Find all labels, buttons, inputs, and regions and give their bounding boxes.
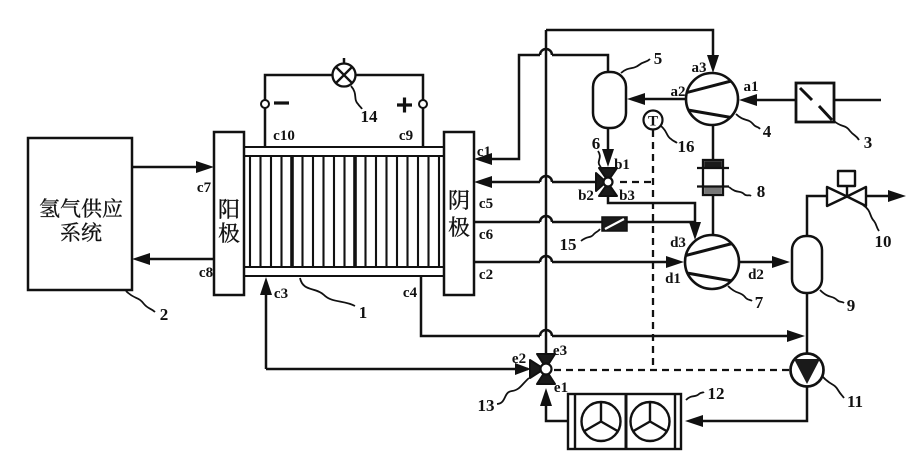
arrow c3 up: [260, 277, 272, 295]
svg-text:c2: c2: [479, 267, 493, 283]
wire a1 filter to compressor4: [756, 99, 795, 102]
lamp 14: [333, 64, 356, 87]
svg-text:c8: c8: [199, 265, 213, 281]
wire tank5 to valve6 b1: [607, 128, 610, 152]
svg-text:d2: d2: [748, 267, 764, 283]
arrow into e2: [515, 363, 531, 375]
leader 13: [497, 378, 529, 404]
dashed control lines: [554, 130, 790, 370]
svg-text:c4: c4: [403, 285, 418, 301]
stack stripes: [250, 156, 439, 267]
leader 2: [126, 291, 155, 312]
arrow into radiator12: [685, 415, 703, 427]
leader 6: [598, 151, 602, 170]
arrow a2 into tank5: [627, 93, 645, 105]
svg-text:d3: d3: [670, 235, 686, 251]
electrical terminals: [261, 100, 427, 108]
wire c3 to valve13 e2: [266, 368, 528, 371]
svg-text:3: 3: [864, 133, 873, 152]
wire tank5 top to c1: [490, 55, 608, 159]
leader 10: [863, 205, 879, 231]
hydrogen supply box 2: [28, 138, 132, 290]
wire c5 from valve6 b2: [490, 181, 597, 184]
svg-text:7: 7: [755, 293, 764, 312]
tank 5: [593, 72, 626, 128]
wire valve6 b3 to d3: [608, 194, 695, 226]
cathode plate: [444, 132, 474, 295]
svg-text:10: 10: [875, 232, 892, 251]
leader 15: [581, 229, 600, 241]
node c10 terminal: [261, 100, 269, 108]
wire tank9 to valve10: [807, 196, 829, 236]
svg-text:d1: d1: [665, 271, 681, 287]
svg-text:11: 11: [847, 392, 863, 411]
wire electrical circuit: [265, 75, 423, 147]
leader 14: [351, 86, 362, 109]
wire d2 compressor7 to tank9: [739, 261, 774, 264]
cathode text: [450, 190, 469, 210]
svg-text:8: 8: [757, 182, 766, 201]
svg-text:2: 2: [160, 305, 169, 324]
fan 2: [631, 402, 670, 441]
arrow d3 down: [689, 222, 701, 240]
leader 1: [300, 278, 355, 306]
leader 4: [736, 114, 760, 129]
wire filter inlet: [834, 99, 881, 102]
valve 13: [530, 354, 555, 384]
svg-text:12: 12: [708, 384, 725, 403]
svg-text:b2: b2: [578, 188, 594, 204]
plus sign: [397, 98, 412, 113]
leader 16: [661, 126, 677, 143]
svg-text:c10: c10: [273, 128, 295, 144]
hop arcs: [540, 49, 552, 336]
wire lamp stub: [343, 58, 346, 64]
wire tank9 to pump11: [806, 293, 809, 355]
wire pump11 to radiator12: [703, 385, 807, 421]
svg-text:b1: b1: [614, 157, 630, 173]
svg-text:c9: c9: [399, 128, 413, 144]
arrow a3 down: [707, 55, 719, 73]
wire a2 compressor4 to tank5: [644, 98, 686, 101]
leader 12: [686, 392, 704, 400]
cooler 8: [697, 160, 729, 195]
svg-text:a1: a1: [744, 79, 759, 95]
wire valve10 outlet: [865, 195, 889, 198]
arrow valve10 outlet: [888, 190, 906, 202]
reference numerals: [160, 49, 892, 415]
svg-text:13: 13: [478, 396, 495, 415]
leader 7: [728, 286, 752, 301]
svg-text:e2: e2: [512, 351, 526, 367]
arrow b1 down: [602, 149, 614, 167]
svg-text:16: 16: [678, 137, 695, 156]
wire top to a3: [546, 30, 713, 58]
wire anode to supply c8: [147, 258, 214, 261]
wire radiator12 to valve13 e1: [546, 406, 568, 421]
arrow c4 into pump line: [787, 330, 805, 342]
minus sign: [274, 101, 289, 104]
svg-text:e1: e1: [554, 380, 568, 396]
wire compressor4 to cooler8: [712, 125, 715, 160]
wire dashed valve13 to pump11: [554, 369, 790, 371]
wire dashed sensor16 drop: [652, 130, 654, 370]
valve 6: [596, 168, 617, 196]
stack bottom bar: [244, 267, 444, 276]
svg-text:c5: c5: [479, 196, 493, 212]
wire c6 line through 15: [474, 221, 695, 224]
anode plate: [214, 132, 244, 295]
svg-text:e3: e3: [553, 343, 567, 359]
arrowheads: [132, 55, 906, 427]
arrow c1: [474, 153, 492, 165]
fan 1: [582, 402, 621, 441]
svg-text:a3: a3: [692, 60, 707, 76]
wire vertical main riser: [545, 30, 548, 356]
anode text: [220, 199, 239, 219]
arrow e1 up: [540, 388, 552, 406]
wire c2 to d1: [474, 261, 667, 264]
fuel cell stack 1: [214, 132, 474, 295]
node c9 terminal: [419, 100, 427, 108]
wire c4 line: [421, 276, 790, 336]
svg-text:1: 1: [359, 303, 368, 322]
svg-text:c7: c7: [197, 180, 212, 196]
wire cooler8 to compressor7: [712, 195, 715, 236]
leader 8: [729, 187, 751, 196]
svg-text:a2: a2: [671, 84, 686, 100]
arrow d1: [666, 256, 684, 268]
svg-text:T: T: [648, 114, 658, 130]
tank 9: [792, 236, 822, 293]
svg-text:c1: c1: [477, 144, 491, 160]
svg-text:4: 4: [763, 122, 772, 141]
svg-text:c3: c3: [274, 286, 288, 302]
wire c3 riser: [265, 285, 268, 369]
svg-text:b3: b3: [619, 188, 635, 204]
svg-text:6: 6: [592, 134, 601, 153]
filter 3: [796, 83, 834, 122]
valve 10: [827, 171, 866, 206]
arrow a1 into compressor4: [739, 94, 757, 106]
leader 9: [820, 290, 844, 303]
radiator 12: [568, 394, 681, 449]
arrow d2 into tank9: [772, 256, 790, 268]
compressor 7: [684, 235, 739, 289]
leader 11: [822, 376, 844, 398]
leader 3: [834, 121, 859, 140]
sensor 16: [644, 111, 663, 130]
arrow c8: [132, 253, 150, 265]
svg-text:9: 9: [847, 296, 856, 315]
port labels: [197, 60, 764, 396]
stack top bar: [244, 147, 444, 156]
svg-text:c6: c6: [479, 227, 494, 243]
pump 11: [791, 354, 824, 387]
arrow c7: [196, 161, 214, 173]
svg-text:14: 14: [361, 107, 379, 126]
arrow c5: [474, 176, 492, 188]
svg-text:5: 5: [654, 49, 663, 68]
wire supply to anode c7: [132, 166, 199, 169]
compressor 4: [685, 73, 738, 125]
component 15: [602, 217, 627, 231]
svg-text:15: 15: [560, 235, 577, 254]
leader lines: [126, 59, 879, 404]
leader 5: [621, 59, 650, 73]
wire dashed to valve6 b3: [620, 181, 653, 183]
